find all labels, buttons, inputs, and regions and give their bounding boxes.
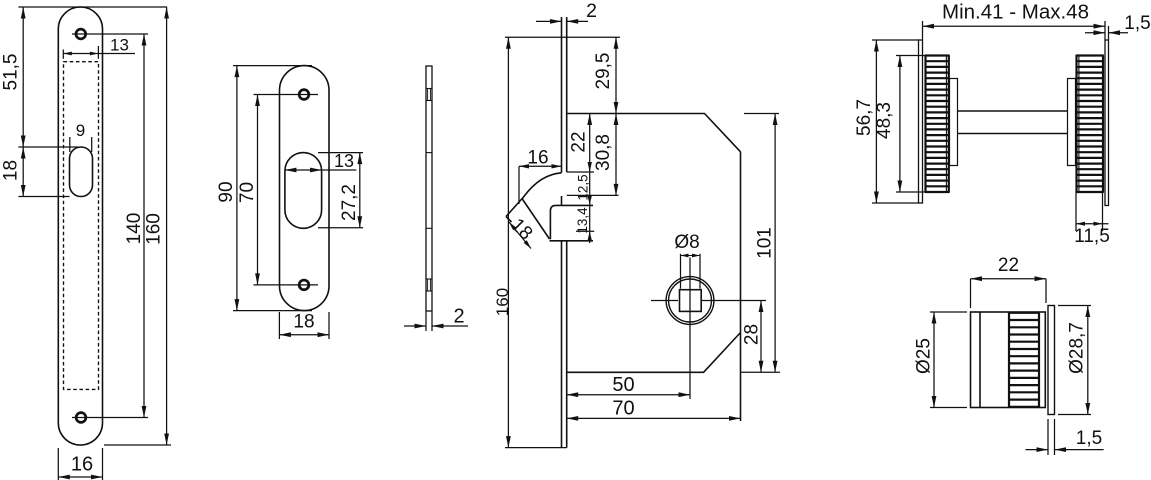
svg-text:160: 160: [144, 213, 165, 245]
svg-text:11,5: 11,5: [1074, 226, 1110, 247]
svg-text:56,7: 56,7: [854, 99, 875, 136]
svg-text:16: 16: [527, 148, 548, 169]
svg-text:13: 13: [110, 36, 129, 55]
svg-text:29,5: 29,5: [593, 53, 614, 90]
svg-text:30,8: 30,8: [593, 134, 614, 171]
svg-text:1,5: 1,5: [1076, 428, 1102, 449]
svg-text:160: 160: [493, 288, 512, 316]
svg-text:48,3: 48,3: [874, 102, 895, 139]
svg-text:1,5: 1,5: [1124, 13, 1150, 34]
svg-text:90: 90: [216, 181, 237, 202]
svg-text:2: 2: [586, 0, 597, 22]
svg-text:13: 13: [334, 151, 354, 171]
svg-text:Ø8: Ø8: [674, 232, 699, 253]
svg-text:13,4: 13,4: [575, 207, 590, 234]
svg-text:51,5: 51,5: [1, 54, 22, 91]
svg-text:70: 70: [612, 398, 634, 420]
svg-text:16: 16: [71, 454, 93, 476]
svg-text:101: 101: [755, 227, 776, 259]
svg-text:27,2: 27,2: [339, 184, 360, 221]
svg-text:70: 70: [237, 182, 258, 203]
svg-text:22: 22: [998, 255, 1019, 276]
svg-text:Ø28,7: Ø28,7: [1067, 322, 1088, 374]
svg-text:28: 28: [742, 324, 763, 345]
svg-text:140: 140: [124, 213, 145, 245]
svg-text:50: 50: [612, 374, 634, 396]
svg-text:9: 9: [76, 121, 85, 140]
svg-text:12,5: 12,5: [576, 174, 591, 200]
svg-text:2: 2: [453, 306, 464, 328]
svg-text:Min.41 - Max.48: Min.41 - Max.48: [942, 1, 1089, 24]
svg-text:18: 18: [1, 160, 22, 181]
svg-text:18: 18: [293, 312, 314, 333]
svg-text:22: 22: [569, 131, 590, 152]
svg-text:Ø25: Ø25: [914, 338, 935, 374]
